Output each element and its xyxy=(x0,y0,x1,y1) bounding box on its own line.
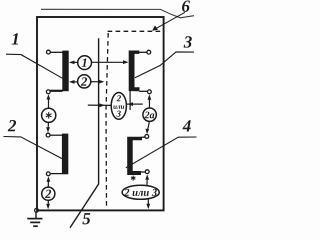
asterisk in source circle xyxy=(46,112,52,118)
electrode 2 top lead xyxy=(50,134,62,136)
wire electrode 2 bottom terminal to circle 2 xyxy=(47,180,49,187)
arrow down at enclosure bottom xyxy=(46,204,50,209)
arrow up at electrode 2 bottom terminal xyxy=(47,176,51,181)
beam circle 2 xyxy=(78,75,91,88)
electrode 1 bottom lead xyxy=(50,90,63,92)
electrode 1 (upper-left plate) xyxy=(62,51,68,92)
electrode 2 (lower-left plate) xyxy=(62,134,68,175)
label 3 xyxy=(184,36,192,47)
electrode 4 top lead xyxy=(142,136,146,138)
ground terminal xyxy=(35,208,39,212)
electrode 3 bottom terminal xyxy=(148,90,152,94)
arrow up at electrode 4 bottom terminal xyxy=(145,174,149,179)
partition line 5 (solid median line with leader to label 5) xyxy=(70,38,99,228)
beam 2 arrow into electrode 1 xyxy=(69,80,75,84)
digit in output circle 2 xyxy=(45,190,51,198)
leader label 3 xyxy=(135,52,194,78)
ground bar 1 xyxy=(27,218,42,220)
arrow down at electrode 4 top terminal xyxy=(145,129,149,134)
leader label 1 xyxy=(6,54,63,78)
median oval text or xyxy=(113,105,124,108)
electrode 4 top terminal xyxy=(145,135,149,139)
electrode 4 bottom lead xyxy=(141,171,146,173)
electrode 1 bottom terminal xyxy=(46,90,50,94)
electrode 1 top lead xyxy=(50,51,63,53)
ground bar 2 xyxy=(30,221,40,223)
electrode 3 top terminal xyxy=(147,50,151,54)
enclosure (outer vessel box) xyxy=(37,17,164,210)
arrow down at electrode 2 top terminal xyxy=(46,127,50,132)
beam 1 line right segment xyxy=(92,61,126,63)
beam circle 1 xyxy=(78,56,92,70)
label 2 xyxy=(8,120,16,131)
output circle 2 (lower-left) xyxy=(42,187,55,200)
wire electrode 4 bottom terminal to output oval xyxy=(146,180,148,185)
ground bar 3 xyxy=(33,225,38,227)
electrode 3 bottom lead xyxy=(139,90,147,92)
right pointer line to median oval xyxy=(127,103,143,105)
median oval text 2 xyxy=(117,95,121,101)
left pointer arrowhead xyxy=(99,103,105,107)
wire circle 2a to electrode 4 top terminal xyxy=(148,121,150,130)
frame break line (top border squiggle) xyxy=(41,9,194,17)
left pointer line to median oval xyxy=(88,104,111,106)
wire source to electrode 2 top terminal xyxy=(47,123,49,129)
leader label 4 xyxy=(126,137,197,168)
beam 2 arrow at partition xyxy=(99,80,105,84)
output oval 2-or-3 (lower-right) xyxy=(122,185,159,199)
wire electrode 3 bottom terminal to circle 2a xyxy=(148,96,150,108)
right pointer arrowhead xyxy=(127,102,133,106)
arrow up at electrode 3 bottom terminal xyxy=(148,94,152,99)
asterisk above output oval xyxy=(131,176,135,181)
arrow down at enclosure bottom right xyxy=(146,204,150,209)
output oval text 2 or 3 xyxy=(124,189,157,196)
dashed screen 6 left edge (median dash line) xyxy=(106,33,108,208)
label 5 xyxy=(82,213,90,224)
leader 6 arrowhead xyxy=(152,26,158,31)
electrode 3 top lead xyxy=(139,51,147,53)
wire circle 2 to enclosure bottom xyxy=(47,200,49,204)
electrode 2 bottom terminal xyxy=(46,172,50,176)
leader label 2 xyxy=(4,137,63,159)
median oval 2-or-3 xyxy=(111,93,126,120)
electrode 2 top terminal xyxy=(46,133,50,137)
label 1 xyxy=(12,33,18,44)
label 4 xyxy=(182,120,190,131)
label 6 xyxy=(182,0,190,11)
text in beam circle 2a xyxy=(144,112,154,119)
wire output oval to enclosure bottom xyxy=(147,200,149,205)
beam 1 arrow into electrode 3 xyxy=(123,60,129,64)
median oval text 3 xyxy=(116,111,120,117)
drop wire from electrode 3 to right pointer xyxy=(129,90,131,111)
ground stem xyxy=(35,212,37,218)
wire source to electrode 1 bottom terminal xyxy=(48,99,50,108)
source circle with asterisk xyxy=(42,108,56,122)
leader label 6 xyxy=(155,12,186,29)
digit in beam circle 1 xyxy=(82,59,87,67)
digit in beam circle 2 xyxy=(81,77,87,85)
electrode 2 bottom lead xyxy=(50,173,62,175)
electrode 1 top terminal xyxy=(47,50,51,54)
beam circle 2a xyxy=(143,108,156,121)
electrode 3 (upper-right plate) xyxy=(129,51,140,92)
beam 2 line right segment xyxy=(91,81,101,83)
electrode 4 bottom terminal xyxy=(145,170,149,174)
electrode 4 (lower-right plate) xyxy=(127,137,142,175)
beam 2 line left segment xyxy=(73,81,78,83)
dashed screen 6 top edge xyxy=(108,30,163,32)
beam 1 line left segment xyxy=(73,61,78,63)
beam 1 arrow into electrode 1 xyxy=(69,61,75,65)
arrow up at electrode 1 bottom terminal xyxy=(47,94,51,99)
